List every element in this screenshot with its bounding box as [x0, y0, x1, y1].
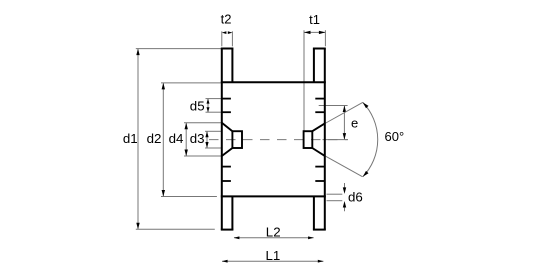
dimension d6 extension lines — [327, 193, 343, 195]
dimension L1 line — [222, 260, 323, 262]
svg-text:t2: t2 — [221, 12, 232, 27]
right taper lower slant — [312, 148, 325, 156]
dimension d2 extension line top — [161, 82, 221, 84]
tooth tick lower-right 1 — [315, 166, 325, 168]
svg-text:e: e — [351, 116, 358, 131]
60 degree construction line upper — [325, 102, 363, 123]
dimension e extension line top (pitch line) — [319, 105, 348, 107]
dimension d1 extension line bottom — [136, 228, 215, 230]
centerline (dashed axis) — [209, 139, 348, 141]
svg-text:60°: 60° — [385, 129, 405, 144]
svg-text:d4: d4 — [169, 131, 184, 146]
dimension d1 line — [137, 49, 139, 229]
left bore rectangle — [232, 131, 242, 148]
dimension d3 line — [206, 132, 208, 148]
tooth tick lower-left 2 — [222, 180, 231, 182]
left taper lower slant — [222, 148, 233, 156]
right bore rectangle — [304, 131, 313, 148]
dimension L2 line — [234, 237, 314, 239]
svg-text:L1: L1 — [266, 248, 281, 263]
body bottom — [221, 195, 326, 197]
svg-text:d3: d3 — [190, 131, 205, 146]
dimension d4 line — [185, 123, 187, 155]
tooth tick upper-right 2 — [315, 111, 325, 113]
dimension d2 extension line bottom — [161, 196, 217, 198]
tooth tick upper-right 1 — [315, 98, 325, 100]
dimension e line — [343, 106, 345, 139]
tooth tick lower-right 2 — [315, 180, 325, 182]
flange top-left — [221, 48, 234, 50]
right taper upper slant — [312, 123, 325, 131]
dimension t1 line — [304, 31, 325, 33]
tooth tick upper-left 2 — [222, 111, 231, 113]
body right edge — [324, 49, 326, 230]
dimension d2 line — [162, 83, 164, 196]
dimension t2 arrows — [222, 31, 227, 34]
dimension d3 extension line top — [205, 130, 221, 132]
dimension t1 extension line left (long, to bore) — [303, 30, 305, 131]
dimension d4 extension line top — [184, 122, 222, 124]
flange top-right — [313, 48, 326, 50]
svg-text:d5: d5 — [190, 99, 205, 114]
flange bottom-left — [221, 229, 234, 231]
dimension d5 extension line top — [206, 98, 222, 100]
left taper upper slant — [222, 123, 233, 131]
tooth tick upper-left 1 — [222, 98, 231, 100]
dimension d4 extension line bottom — [184, 155, 222, 157]
svg-text:t1: t1 — [309, 12, 320, 27]
dimension d3 extension line bottom — [205, 147, 221, 149]
svg-text:L2: L2 — [266, 224, 281, 239]
dimension d5 line — [207, 99, 209, 112]
dimension e extension line bottom (center) — [323, 139, 348, 141]
svg-text:d6: d6 — [348, 189, 363, 204]
dimension d1 extension line top — [136, 48, 222, 50]
body left edge — [221, 49, 223, 230]
dimension t2 extension lines — [221, 31, 223, 46]
svg-text:d1: d1 — [123, 131, 138, 146]
dimension t1 extension line right — [324, 30, 326, 46]
svg-text:d2: d2 — [147, 131, 162, 146]
dimension d6 arrows — [344, 183, 346, 189]
60 degree construction line lower — [325, 156, 363, 177]
dimension d5 extension line bottom — [206, 111, 222, 113]
body top — [221, 81, 326, 83]
60 degree angle arc — [363, 102, 378, 176]
tooth tick lower-left 1 — [222, 166, 231, 168]
flange bottom-right — [313, 229, 326, 231]
